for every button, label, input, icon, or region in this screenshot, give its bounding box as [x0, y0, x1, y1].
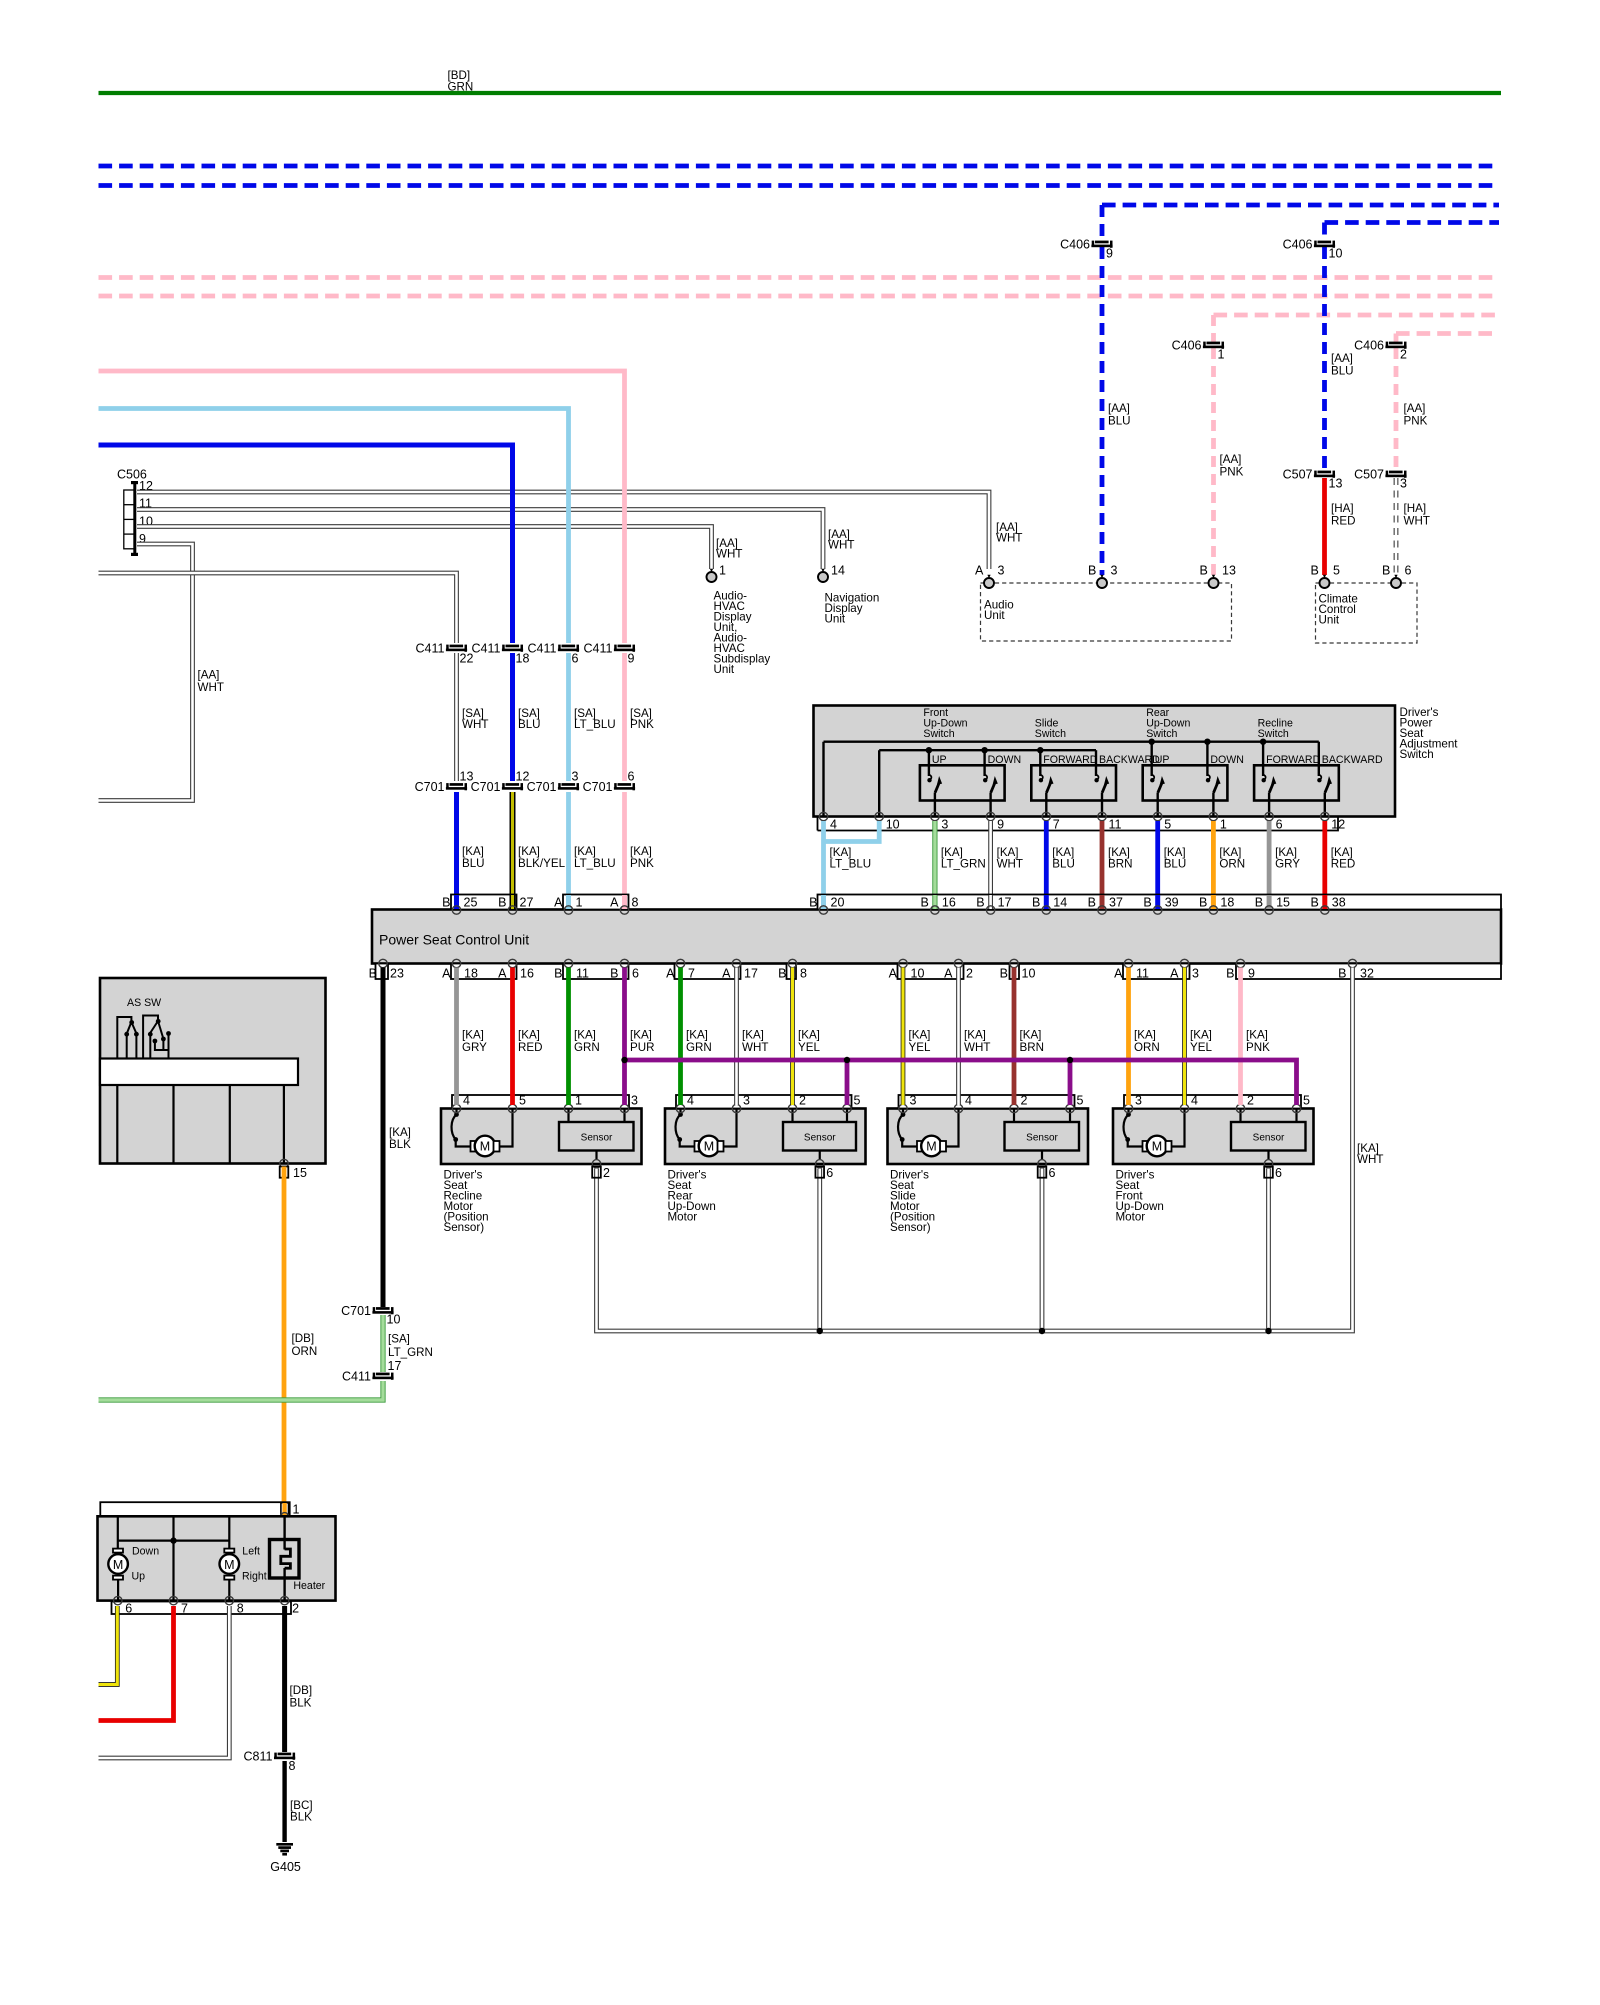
wire YEL mirror 6 to left edge: [99, 1606, 118, 1685]
svg-text:PNK: PNK: [1404, 415, 1428, 428]
svg-text:Right: Right: [242, 1571, 267, 1583]
sensor output terminal: [1038, 1160, 1046, 1168]
svg-text:WHT: WHT: [1404, 515, 1430, 528]
svg-text:2: 2: [1247, 1094, 1254, 1108]
svg-text:BLU: BLU: [1331, 365, 1354, 378]
terminal 5 motor strip: [508, 1104, 516, 1112]
svg-text:B: B: [1311, 564, 1319, 578]
terminal B37 PSCU top: [1100, 895, 1105, 909]
svg-text:2: 2: [1021, 1094, 1028, 1108]
svg-text:M: M: [704, 1140, 714, 1154]
svg-text:Sensor): Sensor): [444, 1221, 485, 1234]
svg-text:1: 1: [1218, 348, 1225, 362]
terminal bracket A18 A16: [451, 964, 517, 980]
wire [SA] LT_BLU from left edge to C411-6: [99, 409, 569, 644]
svg-text:YEL: YEL: [1190, 1041, 1212, 1054]
svg-text:BLU: BLU: [462, 857, 485, 870]
svg-text:3: 3: [941, 818, 948, 832]
svg-text:Motor: Motor: [1116, 1211, 1146, 1224]
switch contact BACKWARD: [1094, 754, 1160, 817]
terminal B17 PSCU top: [988, 895, 993, 909]
svg-text:C701: C701: [583, 780, 613, 794]
svg-text:FORWARD: FORWARD: [1266, 754, 1320, 766]
svg-text:15: 15: [1276, 896, 1290, 910]
svg-text:B: B: [1143, 896, 1151, 910]
svg-text:BLK: BLK: [290, 1697, 312, 1710]
terminal band bottom right from B9: [1236, 964, 1501, 980]
terminal 3 motor strip: [620, 1104, 628, 1112]
svg-text:M: M: [1152, 1140, 1162, 1154]
svg-text:PUR: PUR: [630, 1041, 654, 1054]
terminal strip: [1124, 1095, 1301, 1109]
wire [KA] LT_BLU switch pin 4 to PSCU B20: [821, 821, 826, 908]
switch contact BACKWARD: [1317, 754, 1383, 817]
svg-text:RED: RED: [1331, 515, 1355, 528]
svg-text:10: 10: [886, 818, 900, 832]
terminal bracket A1 A8: [563, 895, 629, 910]
motor M with brushes: [676, 1109, 737, 1157]
terminal bracket A10 A2: [898, 964, 964, 980]
connector C406 pin 2: [1354, 339, 1407, 362]
heater element: [270, 1516, 300, 1600]
switch contact box Rear Up-Down: [1143, 765, 1228, 800]
svg-text:1: 1: [575, 1094, 582, 1108]
wire [AA] BLU dashed drop to C406-9: [1100, 205, 1105, 241]
terminal A1 PSCU top: [566, 895, 571, 909]
svg-text:Unit: Unit: [1319, 614, 1340, 627]
wire RED mirror 7 to left edge: [99, 1606, 174, 1721]
wire C506-12 to Audio Unit A3 (WHT): [137, 492, 989, 569]
svg-text:B: B: [554, 967, 562, 981]
wire [KA] PNK PSCU col14 to motor pin: [1238, 968, 1243, 1106]
wire [HA] WHT dashed C507-3 to Climate Control Unit B6: [1394, 478, 1399, 575]
svg-text:RED: RED: [1331, 858, 1355, 871]
svg-text:Switch: Switch: [923, 728, 954, 740]
ground G405: [276, 1844, 293, 1854]
svg-text:BLU: BLU: [1052, 858, 1075, 871]
wire [KA] RED switch pin 12 to PSCU: [1322, 821, 1327, 908]
svg-text:B: B: [610, 967, 618, 981]
box Climate Control Unit (dashed): [1316, 583, 1418, 643]
wire switch bus B from pin 10: [878, 750, 880, 816]
svg-text:Heater: Heater: [293, 1580, 325, 1592]
svg-text:GRN: GRN: [686, 1041, 712, 1054]
svg-text:32: 32: [1360, 967, 1374, 981]
junction dots on PUR bus: [621, 1057, 627, 1063]
wire [KA] BLK PSCU B23 down to C701-10: [381, 968, 386, 1308]
svg-text:5: 5: [854, 1094, 861, 1108]
svg-text:6: 6: [1276, 818, 1283, 832]
divider lines below AS SW strip: [116, 1085, 118, 1164]
wire [AA] BLU dashed C406-9 to Audio Unit B3: [1100, 247, 1105, 575]
wire WHT mirror 8 to left edge: [99, 1606, 230, 1758]
svg-text:[KA]: [KA]: [1134, 1029, 1156, 1042]
svg-text:3: 3: [1192, 967, 1199, 981]
svg-text:LT_BLU: LT_BLU: [574, 857, 616, 870]
terminal A17 PSCU bottom: [732, 959, 740, 967]
wire [KA] ORN PSCU col12 to motor pin: [1126, 968, 1131, 1106]
terminal B32 PSCU bottom: [1348, 959, 1356, 967]
wire [KA] GRY PSCU col0 to motor pin: [454, 968, 459, 1106]
svg-text:BLK: BLK: [290, 1811, 312, 1824]
svg-text:[AA]: [AA]: [1108, 402, 1130, 415]
connector C406 pin 1: [1172, 339, 1225, 362]
connector C506: [117, 468, 153, 557]
svg-text:25: 25: [464, 896, 478, 910]
svg-text:3: 3: [572, 770, 579, 784]
terminal 6 seat adjustment switch: [1265, 812, 1273, 820]
terminal B25 PSCU top: [454, 895, 459, 909]
terminal bracket B8: [787, 964, 797, 980]
terminal 5 motor strip: [1066, 1104, 1074, 1112]
terminal B11 PSCU bottom: [564, 959, 572, 967]
wire blue dashed bus row 2: [99, 183, 1500, 188]
svg-text:2: 2: [1400, 348, 1407, 362]
connector C507 pin 3: [1354, 468, 1407, 491]
box Driver's Seat motor unit: [665, 1109, 866, 1165]
svg-text:DOWN: DOWN: [1210, 754, 1244, 766]
terminal 1 seat adjustment switch: [1209, 812, 1217, 820]
junction dots on bus B: [926, 747, 932, 753]
svg-text:4: 4: [463, 1094, 470, 1108]
svg-text:M: M: [480, 1140, 490, 1154]
svg-text:7: 7: [1053, 818, 1060, 832]
svg-text:[DB]: [DB]: [292, 1332, 315, 1345]
switch contact UP: [927, 754, 946, 817]
svg-text:LT_GRN: LT_GRN: [388, 1346, 433, 1359]
svg-text:C406: C406: [1172, 339, 1202, 353]
connector C701 pin 3: [527, 770, 579, 795]
terminal B6 Climate Control Unit: [1391, 575, 1401, 588]
terminal 7 mirror unit: [169, 1596, 177, 1604]
terminal B5 Climate Control Unit: [1320, 575, 1330, 588]
svg-text:C411: C411: [584, 642, 613, 656]
terminal A8 PSCU top: [622, 895, 627, 909]
wire [SA] LT_GRN to left edge: [99, 1381, 384, 1400]
svg-text:ORN: ORN: [1134, 1041, 1160, 1054]
svg-text:8: 8: [289, 1759, 296, 1773]
terminal B3 Audio Unit: [1097, 575, 1107, 588]
terminal strip bottom of mirror unit: [112, 1602, 292, 1615]
wire [AA] BLU dashed C406-10 to C507-13: [1322, 247, 1327, 470]
svg-text:[SA]: [SA]: [388, 1333, 410, 1346]
svg-text:BLK: BLK: [389, 1138, 411, 1151]
svg-text:6: 6: [826, 1166, 833, 1180]
wire [DB] BLK mirror 2 to C811-8: [282, 1606, 287, 1752]
svg-text:WHT: WHT: [964, 1041, 990, 1054]
svg-text:AS SW: AS SW: [127, 997, 161, 1009]
svg-text:6: 6: [1275, 1166, 1282, 1180]
svg-text:[KA]: [KA]: [686, 1029, 708, 1042]
connector C701 pin 13: [415, 770, 474, 795]
svg-text:10: 10: [1022, 967, 1036, 981]
wire [KA] WHT switch pin 9 to PSCU: [988, 821, 993, 908]
svg-text:A: A: [975, 564, 984, 578]
wire [DB] ORN AS SW 15 to mirror unit 1: [282, 1167, 287, 1511]
wire [AA] PNK dashed drop to C406-1: [1211, 315, 1216, 342]
terminal 2 mirror unit: [280, 1596, 288, 1604]
svg-text:BRN: BRN: [1108, 858, 1132, 871]
box Driver's Seat motor unit: [888, 1109, 1089, 1165]
svg-text:27: 27: [520, 896, 534, 910]
wire [SA] LT_BLU C411-6 to C701-3: [566, 653, 571, 781]
wire [KA] GRN PSCU col2 to motor pin: [566, 968, 571, 1106]
svg-text:[KA]: [KA]: [798, 1029, 820, 1042]
svg-text:2: 2: [292, 1602, 299, 1616]
svg-text:8: 8: [632, 896, 639, 910]
wire [KA] BLU switch pin 5 to PSCU: [1155, 821, 1160, 908]
wire [SA] PNK C411-9 to C701-6: [622, 653, 627, 781]
svg-text:A: A: [1170, 967, 1179, 981]
svg-text:M: M: [113, 1558, 123, 1572]
svg-text:B: B: [498, 896, 506, 910]
motor M with brushes: [452, 1109, 513, 1157]
terminal A2 PSCU bottom: [954, 959, 962, 967]
svg-text:8: 8: [237, 1602, 244, 1616]
box Driver's Power Seat Adjustment Switch: [814, 706, 1396, 817]
motor M up-down mirror: [108, 1549, 128, 1601]
svg-text:9: 9: [628, 652, 635, 666]
svg-text:GRY: GRY: [1275, 858, 1300, 871]
svg-text:B: B: [442, 896, 450, 910]
terminal A10 PSCU bottom: [899, 959, 907, 967]
terminal B27 PSCU top: [510, 895, 516, 909]
svg-text:A: A: [554, 896, 563, 910]
svg-text:DOWN: DOWN: [988, 754, 1022, 766]
svg-text:Switch: Switch: [1258, 728, 1289, 740]
svg-text:BACKWARD: BACKWARD: [1099, 754, 1160, 766]
terminal 9 seat adjustment switch: [986, 812, 994, 820]
terminal bracket B23: [376, 964, 389, 980]
wire white from left edge to C411-22 (WHT): [99, 573, 457, 643]
wire blue dashed branch row 3: [1102, 203, 1499, 208]
svg-text:18: 18: [464, 967, 478, 981]
switch contact UP: [1150, 754, 1169, 817]
wire [AA] PNK dashed C406-2 to C507-3: [1394, 348, 1399, 470]
wire [KA] LT_BLU switch pin 10 jog: [824, 821, 880, 842]
connector C406 pin 9: [1060, 238, 1113, 261]
svg-text:Switch: Switch: [1146, 728, 1177, 740]
wire [KA] BLU switch pin 7 to PSCU: [1044, 821, 1049, 908]
svg-text:C406: C406: [1283, 238, 1313, 252]
wire [KA] BLU C701-13 to PSCU B25: [454, 792, 459, 908]
wire [SA] BLU from left edge to C411-18: [99, 445, 513, 643]
svg-text:1: 1: [293, 1503, 300, 1517]
svg-text:M: M: [224, 1558, 234, 1572]
svg-text:9: 9: [997, 818, 1004, 832]
wire [AA] PNK dashed drop to C406-2: [1394, 334, 1399, 343]
svg-text:GRN: GRN: [574, 1041, 600, 1054]
wire pink dashed branch row 4: [1396, 331, 1499, 336]
wire C506-9 elbow to left edge (WHT): [99, 544, 193, 801]
connector C701 pin 6: [583, 770, 635, 795]
wire pink dashed bus row 1: [99, 275, 1500, 280]
terminal 6 mirror unit: [114, 1596, 122, 1604]
svg-text:20: 20: [831, 896, 845, 910]
connector C507 pin 13: [1283, 468, 1343, 491]
svg-text:3: 3: [743, 1094, 750, 1108]
terminal B15 PSCU top: [1267, 895, 1272, 909]
svg-text:B: B: [1199, 896, 1207, 910]
svg-text:6: 6: [632, 967, 639, 981]
svg-text:1: 1: [1220, 818, 1227, 832]
svg-text:BACKWARD: BACKWARD: [1322, 754, 1383, 766]
svg-text:FORWARD: FORWARD: [1043, 754, 1097, 766]
terminal 4 seat adjustment switch: [819, 812, 827, 820]
switch contact box Slide: [1031, 765, 1116, 800]
svg-text:ORN: ORN: [292, 1345, 318, 1358]
sensor box: [559, 1109, 634, 1161]
svg-text:[HA]: [HA]: [1331, 502, 1354, 515]
switch contact DOWN: [983, 754, 1021, 817]
junction dots on bus A: [1149, 739, 1155, 745]
svg-text:B: B: [1000, 967, 1008, 981]
terminal 5 motor strip: [1292, 1104, 1300, 1112]
box Driver's Seat motor unit: [1113, 1109, 1314, 1165]
wire [KA] GRN PSCU col4 to motor pin: [678, 968, 683, 1106]
wire [BD] GRN bus: [99, 91, 1502, 95]
svg-text:C507: C507: [1283, 468, 1313, 482]
wire sensor 6 motor4 to bus: [1266, 1169, 1271, 1332]
svg-text:WHT: WHT: [742, 1041, 768, 1054]
wire [AA] BLU dashed drop to C406-10: [1322, 223, 1327, 242]
terminal A7 PSCU bottom: [676, 959, 684, 967]
svg-text:C406: C406: [1354, 339, 1384, 353]
svg-text:4: 4: [687, 1094, 694, 1108]
wire [KA] BRN PSCU col10 to motor pin: [1012, 968, 1017, 1106]
sensor output terminal: [816, 1160, 824, 1168]
svg-text:13: 13: [1329, 477, 1343, 491]
svg-text:10: 10: [387, 1313, 401, 1327]
svg-text:7: 7: [688, 967, 695, 981]
svg-text:5: 5: [1303, 1094, 1310, 1108]
terminal 1 Audio-HVAC Display Unit: [707, 569, 717, 582]
switch contact box Recline: [1254, 765, 1339, 800]
svg-text:Sensor): Sensor): [890, 1221, 931, 1234]
svg-text:Unit: Unit: [825, 613, 846, 626]
svg-text:Switch: Switch: [1400, 748, 1434, 761]
terminal strip inside AS SW: [100, 1059, 298, 1086]
svg-text:C411: C411: [472, 642, 501, 656]
wire [SA] BLU C411-18 to C701-12: [510, 653, 515, 781]
terminal A11 PSCU bottom: [1124, 959, 1132, 967]
svg-text:15: 15: [293, 1166, 307, 1180]
terminal A16 PSCU bottom: [508, 959, 516, 967]
svg-text:Switch: Switch: [1035, 728, 1066, 740]
svg-text:WHT: WHT: [198, 681, 224, 694]
junction dot mirror bus: [170, 1537, 176, 1543]
wire sensor 6 motor2 to bus: [817, 1169, 822, 1332]
svg-text:[AA]: [AA]: [198, 669, 220, 682]
wire [KA] PUR PSCU col3 to motor pin: [622, 968, 627, 1106]
svg-text:BLU: BLU: [1164, 858, 1187, 871]
connector C411 pin 18: [472, 642, 530, 666]
svg-text:C701: C701: [341, 1304, 371, 1318]
svg-text:WHT: WHT: [462, 718, 488, 731]
connector C811 pin 8: [244, 1750, 296, 1774]
svg-text:8: 8: [800, 967, 807, 981]
svg-text:LT_GRN: LT_GRN: [941, 858, 986, 871]
switch contact box Front Up-Down: [920, 765, 1005, 800]
svg-text:2: 2: [603, 1166, 610, 1180]
wire [KA] BLK/YEL C701-12 to PSCU B27: [510, 792, 516, 908]
wire blue dashed bus row 1: [99, 164, 1500, 169]
svg-text:3: 3: [1111, 564, 1118, 578]
wire pink dashed branch row 3: [1214, 313, 1500, 318]
svg-text:14: 14: [831, 564, 845, 578]
terminal 12 seat adjustment switch: [1321, 812, 1329, 820]
sensor output terminal: [1264, 1160, 1272, 1168]
svg-text:38: 38: [1332, 896, 1346, 910]
sensor terminal squares: [592, 1167, 601, 1178]
svg-text:YEL: YEL: [798, 1041, 820, 1054]
svg-text:LT_BLU: LT_BLU: [830, 858, 872, 871]
svg-text:M: M: [926, 1140, 936, 1154]
terminal B8 PSCU bottom: [788, 959, 796, 967]
svg-text:WHT: WHT: [996, 532, 1022, 545]
svg-text:C701: C701: [471, 780, 501, 794]
terminal 3 motor strip: [732, 1104, 740, 1112]
box Power Seat Control Unit: [372, 910, 1501, 964]
wire sensor 6 motor3 to bus: [1040, 1169, 1045, 1332]
svg-text:5: 5: [519, 1094, 526, 1108]
svg-text:Power Seat Control Unit: Power Seat Control Unit: [379, 932, 529, 948]
svg-text:1: 1: [719, 564, 726, 578]
connector C701 pin 12: [471, 770, 530, 795]
wire [AA] PNK dashed C406-1 to Audio Unit B13: [1211, 348, 1216, 575]
wire C506-11 to Navigation Display Unit 14 (WHT): [137, 510, 823, 570]
terminal B23 PSCU bottom: [379, 959, 387, 967]
svg-text:B: B: [1382, 564, 1390, 578]
terminal 11 seat adjustment switch: [1098, 812, 1106, 820]
svg-text:Sensor: Sensor: [1253, 1133, 1285, 1144]
switch contact FORWARD: [1039, 754, 1098, 817]
terminal bracket B25 B27: [451, 895, 517, 910]
terminal B38 PSCU top: [1322, 895, 1327, 909]
svg-text:6: 6: [628, 770, 635, 784]
svg-text:B: B: [1255, 896, 1263, 910]
svg-text:Motor: Motor: [668, 1211, 698, 1224]
svg-text:B: B: [1200, 564, 1208, 578]
svg-text:[AA]: [AA]: [1404, 402, 1426, 415]
svg-text:BRN: BRN: [1020, 1041, 1044, 1054]
svg-text:C701: C701: [415, 780, 445, 794]
svg-text:G405: G405: [270, 1860, 301, 1874]
svg-text:[DB]: [DB]: [290, 1684, 313, 1697]
svg-text:BLK/YEL: BLK/YEL: [518, 857, 566, 870]
svg-text:4: 4: [965, 1094, 972, 1108]
svg-text:[AA]: [AA]: [1331, 352, 1353, 365]
terminal 4 motor strip: [954, 1104, 962, 1112]
svg-text:RED: RED: [518, 1041, 542, 1054]
terminal A3 PSCU bottom: [1180, 959, 1188, 967]
svg-text:C811: C811: [244, 1750, 273, 1764]
terminal B16 PSCU top: [932, 895, 937, 909]
motor M left-right mirror: [220, 1549, 240, 1601]
terminal B18 PSCU top: [1211, 895, 1216, 909]
junction dots on sensor bus: [817, 1328, 823, 1334]
wire [KA] LT_BLU C701-3 to PSCU A1: [566, 792, 571, 908]
terminal 1 motor strip: [564, 1104, 572, 1112]
svg-text:3: 3: [998, 564, 1005, 578]
connector C411 pin 9: [584, 642, 636, 666]
svg-text:C411: C411: [416, 642, 445, 656]
wire C506-10 to Audio-HVAC Display Unit 1 (WHT): [137, 527, 712, 570]
wire [SA] LT_GRN C701-10 to C411-17: [380, 1315, 385, 1372]
terminal bracket A7 A17: [675, 964, 741, 980]
terminal 5 motor strip: [843, 1104, 851, 1112]
terminal strip: [899, 1095, 1075, 1109]
